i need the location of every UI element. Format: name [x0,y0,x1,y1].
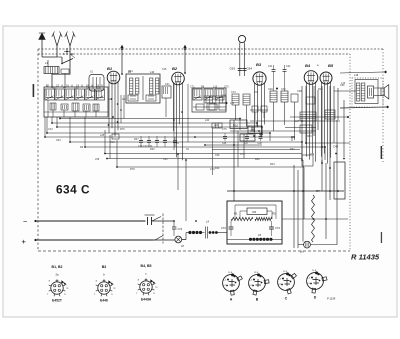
svg-text:B1: B1 [107,66,113,71]
svg-text:C47: C47 [244,143,249,145]
svg-text:+: + [22,237,27,246]
svg-text:R3: R3 [253,210,257,214]
svg-text:C63: C63 [230,67,236,71]
svg-text:LP: LP [181,244,184,248]
svg-text:2m: 2m [300,250,304,254]
svg-text:C15: C15 [162,68,167,71]
svg-text:R19: R19 [318,88,323,91]
svg-text:E452T: E452T [52,299,62,303]
svg-text:C31: C31 [165,83,170,86]
svg-text:E446: E446 [100,299,108,303]
svg-text:C12: C12 [122,98,127,101]
svg-text:−: − [23,217,28,226]
svg-text:R47: R47 [134,138,139,141]
svg-text:P 1158: P 1158 [327,297,336,301]
svg-text:634 C: 634 C [56,183,90,197]
svg-text:R54: R54 [128,70,133,73]
svg-text:R68: R68 [255,158,260,161]
svg-text:C16: C16 [210,168,215,171]
svg-text:L5: L5 [258,233,262,237]
svg-text:L40: L40 [205,119,210,122]
svg-text:R1: R1 [234,212,238,216]
svg-text:R69: R69 [307,135,312,138]
svg-text:R2: R2 [272,212,276,216]
svg-text:L74: L74 [230,102,235,105]
svg-text:R75: R75 [120,128,125,131]
svg-text:C72: C72 [221,226,226,230]
svg-text:m: m [113,288,115,290]
svg-text:L16: L16 [341,82,346,85]
svg-text:L28: L28 [108,98,113,101]
svg-text:L16: L16 [213,86,218,89]
svg-text:L25: L25 [100,134,105,137]
svg-text:R20: R20 [52,87,57,90]
svg-text:C75: C75 [224,86,229,89]
svg-text:C44: C44 [48,128,53,131]
svg-text:2a: 2a [55,273,59,277]
svg-text:B5: B5 [328,63,334,68]
svg-text:C63: C63 [56,139,61,142]
svg-text:C70: C70 [178,228,183,231]
svg-text:C47: C47 [86,87,91,90]
svg-text:C72: C72 [281,88,286,91]
svg-text:C73: C73 [275,226,280,230]
svg-text:R78: R78 [130,168,135,171]
svg-text:C69: C69 [74,87,79,90]
svg-text:L24: L24 [214,124,219,127]
svg-text:C41: C41 [268,65,273,68]
svg-text:C48: C48 [258,143,263,145]
svg-text:C75: C75 [222,128,227,131]
svg-text:S: S [63,52,65,56]
svg-text:R13: R13 [110,141,115,144]
svg-text:B4, B5: B4, B5 [141,264,152,268]
svg-text:L10: L10 [222,94,227,97]
svg-text:R14: R14 [215,167,220,170]
svg-text:R44: R44 [270,163,275,166]
svg-text:B1, B2: B1, B2 [52,265,63,269]
svg-text:m: m [155,287,157,289]
svg-text:C29: C29 [268,88,273,91]
svg-text:C45: C45 [222,143,227,145]
svg-text:C71: C71 [190,86,195,89]
svg-text:R32: R32 [150,148,155,151]
svg-text:C64: C64 [247,67,253,71]
svg-text:m: m [66,288,68,290]
svg-text:L16: L16 [354,74,359,77]
svg-text:C42: C42 [286,65,291,68]
svg-text:L10: L10 [150,71,155,74]
svg-text:E443H: E443H [141,298,152,302]
svg-text:C49: C49 [333,145,339,149]
svg-text:C74: C74 [231,91,236,94]
svg-text:L27: L27 [295,120,300,123]
svg-text:L51: L51 [254,91,259,94]
svg-text:R 11435: R 11435 [351,253,380,262]
svg-text:R41: R41 [290,148,295,151]
svg-text:C38: C38 [297,90,302,93]
svg-text:C46: C46 [215,154,220,157]
svg-text:B2: B2 [172,66,178,71]
svg-text:B3: B3 [102,265,107,269]
svg-text:B4: B4 [305,63,311,68]
svg-text:B3: B3 [256,62,262,67]
svg-text:L54: L54 [310,153,315,156]
svg-text:C32: C32 [163,158,168,161]
svg-text:L58: L58 [95,158,100,161]
svg-text:C74: C74 [240,153,245,156]
